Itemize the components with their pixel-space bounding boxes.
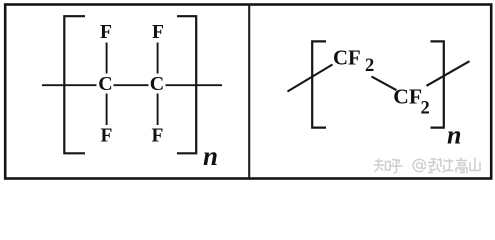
right bracket (left structure) [177, 16, 196, 153]
right bracket (right structure) [431, 41, 444, 127]
乎 [390, 159, 403, 173]
svg-text:2: 2 [421, 98, 430, 118]
group label CF2 (first) [333, 47, 374, 77]
subscript n (right structure) [447, 121, 461, 150]
svg-text:n: n [203, 141, 218, 171]
left bracket (left structure) [64, 16, 85, 153]
wire: diagonal bond into CF2 group 1 [288, 65, 333, 92]
subscript n (left structure) [203, 141, 218, 171]
bond C2-F4(bottom) [157, 94, 159, 126]
wire: bond C1-C2 [114, 84, 149, 86]
bond C1-F1(top) [106, 43, 108, 74]
@ [413, 159, 425, 171]
svg-text:C: C [150, 73, 164, 95]
wire: backbone segment right of C2 [166, 84, 223, 86]
panel divider line [248, 4, 250, 178]
svg-text:F: F [152, 22, 164, 43]
wire: diagonal bond CF2(1)-CF2(2) [372, 77, 397, 91]
svg-text:CF: CF [393, 84, 422, 108]
svg-text:F: F [100, 22, 112, 43]
过 [443, 159, 454, 173]
wire: diagonal bond out of CF2 group 2 [427, 61, 470, 86]
svg-text:C: C [98, 73, 112, 95]
bond C2-F2(top) [157, 43, 159, 74]
group label CF2 (second) [393, 84, 429, 118]
svg-text:CF: CF [333, 47, 361, 70]
越 [428, 158, 441, 173]
atom label F4 (bottom right) [152, 126, 164, 147]
bond C1-F3(bottom) [106, 94, 108, 126]
atom label F1 (top left) [100, 22, 112, 43]
outer frame border [5, 5, 491, 179]
atom label F2 (top right) [152, 22, 164, 43]
atom label F3 (bottom left) [101, 126, 113, 147]
wire: backbone segment left of C1 [42, 84, 97, 86]
left bracket (right structure) [312, 41, 326, 127]
atom label C1 [98, 73, 112, 95]
atom label C2 [150, 73, 164, 95]
知 [374, 159, 390, 173]
svg-text:2: 2 [365, 56, 374, 76]
svg-text:n: n [447, 121, 461, 150]
高 [456, 158, 467, 174]
watermark: zhihu @越过高山 (drawn strokes, light gray) [374, 158, 480, 174]
svg-text:F: F [101, 126, 113, 147]
svg-text:F: F [152, 126, 164, 147]
山 [470, 158, 480, 172]
